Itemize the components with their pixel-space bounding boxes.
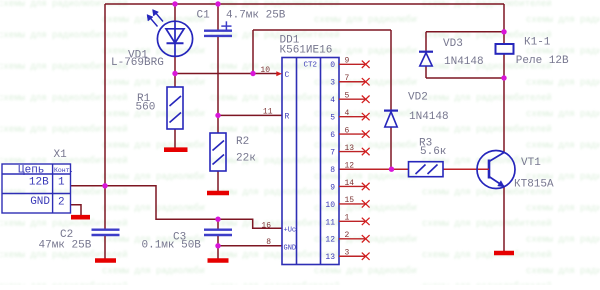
wire VD2 top stem [390, 30, 392, 110]
svg-text:2: 2 [345, 231, 350, 240]
svg-text:8: 8 [330, 166, 335, 175]
svg-text:GND: GND [284, 244, 297, 252]
ground R1 [164, 147, 188, 152]
node Q13 pin3 [325, 249, 369, 263]
capacitor C2 [92, 230, 120, 235]
junction X1 12V node [102, 183, 107, 188]
svg-text:47мк 25В: 47мк 25В [39, 240, 92, 252]
svg-text:12: 12 [325, 236, 335, 245]
svg-text:10: 10 [260, 66, 270, 75]
wire C1 bottom to R2 [217, 37, 219, 133]
svg-text:2: 2 [58, 197, 65, 209]
wire X1 pin1 to junction [71, 185, 106, 187]
node Q8 pin12 [330, 161, 354, 175]
transistor VT1 [477, 151, 515, 189]
svg-text:К1-1: К1-1 [524, 37, 551, 49]
wire left +12V vertical from rail to C2 [104, 4, 106, 229]
wire X1 pin2 to ground [71, 205, 82, 216]
junction relay bottom / VT1 collector [501, 75, 506, 80]
capacitor C3 [204, 230, 232, 235]
svg-text:8: 8 [266, 238, 271, 247]
junction VD1 top rail [172, 1, 177, 6]
svg-text:C1: C1 [197, 10, 211, 22]
svg-text:0.1мк 50В: 0.1мк 50В [142, 240, 202, 252]
wire reset node to DD1 pin11 [218, 114, 282, 116]
wire R2 bottom to ground [217, 171, 219, 191]
svg-text:X1: X1 [54, 149, 68, 161]
wire C2 bottom stem [104, 236, 106, 259]
wire clock branch horizontal to VD2 [253, 29, 391, 31]
svg-text:6: 6 [345, 126, 350, 135]
junction C1 / R2 reset node [215, 113, 220, 118]
svg-text:7: 7 [330, 148, 335, 157]
capacitor C1 [204, 21, 232, 36]
svg-text:4.7мк 25В: 4.7мк 25В [226, 10, 286, 22]
svg-text:К561ИЕ16: К561ИЕ16 [280, 45, 333, 57]
svg-text:VD2: VD2 [408, 92, 428, 104]
node Q4 pin5 [330, 92, 369, 106]
diode VD3 [419, 52, 433, 66]
wire +12V top rail [105, 3, 504, 5]
node Q6 pin6 [330, 126, 369, 140]
junction relay top / +12V [501, 29, 506, 34]
node Q7 pin13 [330, 144, 369, 158]
svg-text:R: R [285, 113, 290, 122]
svg-text:1: 1 [58, 177, 65, 189]
wire R1 bottom to ground [174, 129, 176, 148]
svg-text:L-769BRG: L-769BRG [111, 57, 164, 69]
junction VD1 cathode / R1 clock node [172, 71, 177, 76]
wire VD1 bottom through node to R1 [174, 56, 176, 87]
wire VD3 top stem [425, 32, 427, 51]
svg-text:12В: 12В [29, 177, 49, 189]
op-amp U1 counter DD1 body [282, 58, 339, 265]
svg-text:1N4148: 1N4148 [409, 111, 449, 123]
LED VD1 [147, 10, 193, 57]
svg-text:10: 10 [325, 201, 335, 210]
ground X1 GND [71, 215, 90, 220]
ground R2 [207, 191, 229, 196]
ground C3 [208, 258, 229, 263]
wire VD3 bottom to relay bottom [426, 77, 504, 79]
svg-text:15: 15 [345, 196, 355, 205]
wire R3 to VT1 base [443, 168, 488, 170]
svg-text:C: C [285, 71, 290, 80]
svg-text:14: 14 [345, 179, 355, 188]
wire clock branch vertical [252, 30, 254, 74]
svg-text:VD3: VD3 [443, 38, 463, 50]
wire VD3 bottom stem [425, 67, 427, 79]
wire DD1 pin12 to R3 [339, 168, 409, 170]
node Q0 pin9 [330, 57, 369, 71]
ground VT1 emitter [494, 251, 514, 256]
junction C3 top / +U net [215, 217, 220, 222]
svg-text:VT1: VT1 [521, 157, 541, 169]
svg-text:16: 16 [261, 221, 271, 230]
DD1 output pins right side [325, 57, 369, 263]
svg-text:1N4148: 1N4148 [444, 56, 484, 68]
svg-text:11: 11 [325, 218, 335, 227]
svg-text:R2: R2 [236, 136, 249, 148]
node Q5 pin4 [330, 109, 369, 123]
wire VT1 base inside [488, 168, 489, 170]
junction VD2 / pin12 / R3 node [389, 167, 394, 172]
svg-text:4: 4 [345, 109, 350, 118]
wire relay top to VD3 [426, 31, 504, 33]
wire C1 top stem [217, 4, 219, 30]
ground C2 [95, 258, 116, 263]
node Q12 pin2 [325, 231, 369, 245]
svg-text:3: 3 [330, 79, 335, 88]
svg-text:5: 5 [330, 114, 335, 123]
svg-text:9: 9 [330, 183, 335, 192]
wire VD1 top stem [174, 4, 176, 21]
resistor R2 [210, 133, 226, 171]
wire VT1 emitter to ground [503, 187, 505, 252]
svg-text:6: 6 [330, 131, 335, 140]
wire +12V drop to relay [503, 4, 505, 44]
node Q10 pin15 [325, 196, 369, 210]
svg-text:0: 0 [330, 61, 335, 70]
node Q9 pin14 [330, 179, 369, 193]
node Q11 pin1 [325, 214, 369, 228]
resistor R1 [167, 87, 183, 129]
svg-text:Конт.: Конт. [54, 167, 74, 174]
svg-text:11: 11 [263, 108, 273, 117]
pin C input arrow [276, 71, 282, 76]
svg-text:КТ815А: КТ815А [514, 179, 554, 191]
junction C1 top rail [215, 1, 220, 6]
svg-text:12: 12 [345, 161, 355, 170]
svg-text:3: 3 [345, 249, 350, 258]
wire relay bottom stem [503, 54, 505, 78]
svg-text:5: 5 [345, 92, 350, 101]
connector X1 [2, 164, 71, 213]
node Q3 pin7 [330, 74, 369, 88]
svg-text:4: 4 [330, 96, 335, 105]
junction clock branch [250, 71, 255, 76]
svg-text:13: 13 [325, 253, 335, 262]
resistor R3 [409, 162, 444, 177]
svg-text:1: 1 [345, 214, 350, 223]
svg-text:+Uс: +Uс [284, 227, 297, 235]
diode VD2 [384, 111, 398, 127]
svg-text:CT2: CT2 [304, 62, 318, 70]
relay coil K1-1 [496, 44, 514, 54]
svg-text:9: 9 [345, 57, 350, 66]
wire C3 bottom stem to ground [217, 236, 219, 259]
svg-text:Цепь: Цепь [18, 165, 44, 177]
svg-text:GND: GND [30, 196, 50, 208]
wire clock node to DD1 pin10 [175, 73, 278, 75]
svg-text:Реле 12В: Реле 12В [516, 55, 569, 67]
wire staircase junction to DD1 pin16 [105, 186, 282, 229]
wire VD2 bottom stem [390, 127, 392, 169]
svg-text:5.6к: 5.6к [420, 146, 446, 158]
wire C3 node to DD1 pin8 [218, 245, 282, 247]
svg-text:7: 7 [345, 74, 350, 83]
svg-text:560: 560 [136, 102, 156, 114]
wire relay node to VT1 collector [503, 78, 505, 153]
svg-text:13: 13 [345, 144, 355, 153]
wire C3 top stem [217, 219, 219, 229]
svg-text:22к: 22к [236, 153, 256, 165]
junction C3 bottom / GND net [215, 243, 220, 248]
